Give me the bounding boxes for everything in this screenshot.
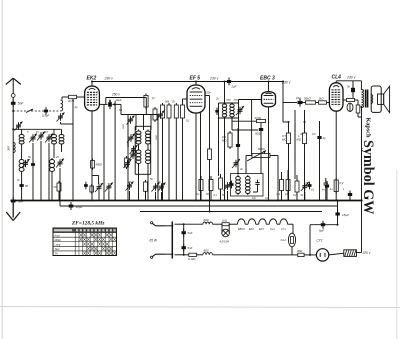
svg-text:4,5/0,04: 4,5/0,04 <box>220 240 230 244</box>
resistor dropper <box>356 103 360 115</box>
wire EF3 k second <box>200 113 202 201</box>
coil IFT1 secondary <box>230 103 234 119</box>
svg-text:50kΩ: 50kΩ <box>258 147 266 151</box>
dial lamp CL2 <box>288 233 295 247</box>
wire <box>157 115 159 201</box>
trimmer IFT1 right <box>236 106 244 115</box>
wire <box>108 191 110 201</box>
wire <box>150 115 152 131</box>
trimmer cath a <box>95 183 103 192</box>
wire <box>21 188 23 201</box>
trimmer C osc1 <box>127 134 135 143</box>
svg-text:EBC3: EBC3 <box>238 228 245 231</box>
mains plug lower prong <box>156 253 166 255</box>
wire dashed wave switch <box>13 110 60 112</box>
svg-text:2p: 2p <box>322 136 327 140</box>
wire grid to tube <box>77 96 85 98</box>
svg-text:0000: 0000 <box>156 134 158 140</box>
wire <box>357 113 359 117</box>
svg-text:CY1: CY1 <box>317 239 323 243</box>
wire <box>229 223 237 225</box>
page edge right <box>396 170 398 339</box>
svg-text:30Ω: 30Ω <box>297 249 303 253</box>
trimmer C on antenna lead <box>15 122 23 131</box>
transformer secondary <box>371 95 373 104</box>
wire link row1 <box>232 120 257 122</box>
svg-text:15µF: 15µF <box>342 213 349 217</box>
capacitor blob right2 <box>317 134 321 142</box>
trimmer C3 <box>37 132 45 141</box>
resistor R row1c <box>167 103 171 120</box>
wire EF3 in left <box>183 98 188 100</box>
wire 8uF line <box>310 224 338 226</box>
wire osc bracket <box>135 125 151 127</box>
capacitor C blob <box>31 161 35 169</box>
tube EF3 <box>187 85 205 113</box>
wire <box>281 172 283 180</box>
capacitor 5nF to ground bus <box>11 197 16 205</box>
svg-text:1kΩ: 1kΩ <box>222 219 228 223</box>
tube EK2 <box>85 86 100 111</box>
wire <box>205 95 207 97</box>
wire <box>304 144 306 201</box>
svg-text:Kurz: Kurz <box>55 233 61 237</box>
wire <box>138 146 140 150</box>
capacitor 500u <box>259 126 263 134</box>
svg-text:Mittel: Mittel <box>55 238 62 242</box>
alignment table <box>53 228 117 256</box>
svg-text:Kapsch: Kapsch <box>365 118 372 139</box>
mains plug upper prong <box>156 225 166 227</box>
resistor 0,1k <box>189 253 197 256</box>
wire <box>316 102 319 104</box>
trimmer tone <box>232 159 240 168</box>
wire EBC3 anode right <box>282 82 284 103</box>
wire <box>200 176 202 180</box>
svg-text:400Ω: 400Ω <box>96 163 102 167</box>
wire pot right <box>270 155 278 157</box>
svg-text:CL2: CL2 <box>281 238 287 242</box>
svg-text:220 v: 220 v <box>362 251 371 255</box>
resistor 1M col <box>302 131 306 146</box>
svg-text:220v: 220v <box>204 91 211 95</box>
coil Losc3 <box>136 149 141 166</box>
barretter 600 top <box>203 222 213 224</box>
wire <box>294 122 296 161</box>
wire anode stub EBC3 <box>268 82 270 92</box>
trimmer osc m3 <box>124 159 132 168</box>
capacitor blob cath <box>84 182 88 190</box>
resistor 47k horizontal <box>257 119 266 122</box>
svg-text:CL4: CL4 <box>332 75 342 81</box>
resistor 30ohm <box>298 253 304 256</box>
svg-text:Lang: Lang <box>55 243 61 247</box>
svg-text:10µF: 10µF <box>76 205 83 209</box>
svg-text:360: 360 <box>7 146 11 151</box>
wire <box>329 253 344 255</box>
svg-text:EF3: EF3 <box>259 228 264 231</box>
wire <box>325 178 327 181</box>
svg-text:50: 50 <box>25 184 29 188</box>
wire EBC3 left vertical <box>251 100 253 156</box>
wire bus2 left end <box>59 201 61 207</box>
svg-text:250 v: 250 v <box>111 93 120 97</box>
trimmer padder <box>57 113 65 122</box>
wire <box>283 102 297 104</box>
capacitor 2uF on rail <box>227 78 231 86</box>
trimmer C6 <box>56 159 64 168</box>
svg-text:ZF=128,5 kHz: ZF=128,5 kHz <box>71 221 105 227</box>
wire <box>145 98 147 115</box>
trimmer osc m1 <box>127 116 135 125</box>
capacitor IFT1 left <box>215 108 218 115</box>
wire EBC3 cathode <box>268 107 270 201</box>
speaker frame <box>371 86 381 112</box>
coil IFT2 b <box>246 175 251 195</box>
resistor Rb1 <box>199 178 203 193</box>
wire anode stub EF3 <box>195 82 197 86</box>
page edge bottom <box>0 307 400 308</box>
wire <box>175 120 177 201</box>
resistor R bank <box>57 181 61 193</box>
svg-text:5nF: 5nF <box>188 231 193 235</box>
wire ground bus 1 (thick) <box>11 200 363 202</box>
wire right col 295 <box>294 110 296 179</box>
svg-text:Symbol GW: Symbol GW <box>360 140 376 215</box>
wire vert 104 <box>103 104 105 200</box>
wire return bus 3 <box>140 211 322 213</box>
capacitor 10nF coupling <box>298 98 303 106</box>
svg-text:2000: 2000 <box>233 100 240 102</box>
resistor R row1e <box>181 103 185 120</box>
capacitor 10uF bus2 <box>69 202 74 210</box>
svg-text:10n: 10n <box>296 96 301 100</box>
wire <box>260 123 262 127</box>
capacitor IFT2 <box>255 180 259 188</box>
resistor Rc3 <box>295 179 299 194</box>
wire <box>48 143 50 201</box>
antenna <box>6 78 21 93</box>
wire anode stub EK2 <box>91 82 93 87</box>
coil L4 <box>59 133 64 146</box>
svg-text:230 v: 230 v <box>346 76 356 80</box>
wire rect cathode drop <box>309 225 311 255</box>
trimmer cath b <box>105 183 113 192</box>
svg-text:4n75: 4n75 <box>68 99 75 103</box>
wire <box>61 129 63 133</box>
trimmer Cc <box>301 182 309 191</box>
wire <box>138 165 140 201</box>
resistor Rb2 <box>209 178 213 193</box>
cathode circle CL4 <box>347 103 353 111</box>
wire 2p line <box>72 99 74 124</box>
coil L5 <box>50 158 55 173</box>
svg-text:10µF: 10µF <box>115 98 122 102</box>
wire <box>161 192 163 201</box>
wire <box>98 191 100 201</box>
capacitor 0,5uF on switch line <box>44 107 48 115</box>
capacitor blob c <box>308 182 312 190</box>
pot arrow <box>247 151 266 162</box>
resistor on osc left line <box>125 156 129 169</box>
wire <box>58 191 60 201</box>
trimmer osc b1 <box>126 182 134 191</box>
wire EF3 g2 right <box>205 95 210 97</box>
svg-text:0,1: 0,1 <box>97 91 101 95</box>
svg-text:50kΩ: 50kΩ <box>304 97 312 101</box>
svg-text:50k: 50k <box>165 100 170 104</box>
wire IFT1 left leg <box>218 118 220 176</box>
wire <box>32 143 34 201</box>
svg-text:CY1: CY1 <box>281 228 286 231</box>
wire grid to CL4 <box>327 102 330 104</box>
resistor 50k grid <box>306 101 316 104</box>
wire <box>197 254 203 256</box>
wire <box>304 254 316 256</box>
wire <box>355 99 359 101</box>
wire EF3 cathode <box>195 113 197 201</box>
barretter 600 bottom <box>203 253 213 255</box>
svg-text:0000: 0000 <box>126 141 130 147</box>
coil L3 <box>52 133 57 146</box>
coil ant secondary <box>61 100 63 111</box>
coil Losc1 <box>136 130 141 146</box>
svg-text:0,2: 0,2 <box>340 181 344 185</box>
trimmer C row1 <box>157 111 165 120</box>
page edge left <box>1 0 3 339</box>
svg-text:2µF: 2µF <box>231 85 237 89</box>
wire antenna down <box>12 97 14 199</box>
svg-text:0000: 0000 <box>123 123 125 129</box>
tube CL4 <box>329 83 343 111</box>
trimmer C osc2 <box>129 151 137 160</box>
wire <box>291 223 294 225</box>
svg-text:0,1kΩ: 0,1kΩ <box>188 257 196 261</box>
switch mains <box>171 222 173 259</box>
trimmer C4 <box>45 134 53 143</box>
IFT2 frame <box>231 174 264 197</box>
transformer core <box>365 90 367 108</box>
resistor R row1d <box>174 103 178 120</box>
wire <box>209 160 211 212</box>
wire CL4 cathode <box>335 111 337 200</box>
wire <box>72 124 74 201</box>
resistor 400 on EK2 cathode <box>91 159 95 171</box>
capacitor 4n75 box <box>69 95 77 98</box>
resistor 1k grid <box>319 101 327 104</box>
wire <box>112 103 121 105</box>
volume pot 50k <box>252 154 270 158</box>
resistor 1k lamp shunt <box>222 223 229 226</box>
svg-text:230 v: 230 v <box>209 76 219 80</box>
trimmer Cb <box>224 182 232 191</box>
wire col 283 down <box>282 103 284 123</box>
wire EK2 right <box>100 103 108 105</box>
wire <box>145 191 147 200</box>
svg-text:230 v: 230 v <box>104 76 114 80</box>
choke hatched <box>344 250 357 257</box>
svg-text:2n: 2n <box>215 97 219 101</box>
transformer primary <box>361 90 363 108</box>
svg-text:0,5: 0,5 <box>312 132 316 136</box>
wire mains bottom <box>165 253 172 255</box>
wire <box>59 168 61 201</box>
coil IFT2 a <box>236 175 241 195</box>
wire IFT1 inner legs <box>224 118 226 201</box>
capacitor 5nF antenna series <box>11 99 16 107</box>
capacitor 8uF <box>321 221 325 229</box>
svg-text:2n: 2n <box>299 132 303 136</box>
wire mains caps <box>183 224 185 255</box>
capacitor plates c <box>324 180 329 188</box>
capacitor 2n CL4 k <box>325 182 329 190</box>
svg-text:1kΩ: 1kΩ <box>319 97 325 101</box>
wire pot left <box>246 155 252 157</box>
svg-text:2p: 2p <box>74 105 79 109</box>
wire IFT1 down <box>231 118 233 128</box>
resistor on g2 line <box>208 147 212 162</box>
trimmer osc m2 <box>130 145 138 154</box>
wire <box>326 181 328 201</box>
svg-text:0,1: 0,1 <box>196 192 200 196</box>
wire <box>129 191 131 201</box>
wire <box>155 192 157 201</box>
wire anode CL4 <box>335 81 337 83</box>
trimmer C5 <box>22 159 30 168</box>
svg-text:EBC 3: EBC 3 <box>260 76 275 82</box>
wire <box>349 191 351 201</box>
resistor cath box <box>90 184 94 194</box>
wire <box>291 247 293 255</box>
svg-text:0,5µF: 0,5µF <box>42 114 49 118</box>
wire <box>319 121 321 134</box>
wire <box>51 173 53 201</box>
coil IFT1 primary <box>222 103 226 119</box>
capacitor 15uF <box>335 210 339 218</box>
wire <box>237 128 239 143</box>
capacitor 0,1u corner <box>348 191 352 199</box>
svg-text:0,1: 0,1 <box>277 192 281 196</box>
resistor R row1b <box>161 103 165 120</box>
resistor R row1a <box>153 107 157 122</box>
svg-text:2000: 2000 <box>225 100 232 102</box>
wire osc top <box>120 104 122 114</box>
capacitor blob mid <box>236 142 240 150</box>
capacitor C to bus <box>20 182 24 190</box>
node antenna terminal <box>11 94 15 98</box>
svg-text:5n: 5n <box>347 85 351 89</box>
resistor CL4 cath <box>334 178 338 194</box>
svg-text:EF 5: EF 5 <box>190 76 201 82</box>
wire <box>21 146 23 159</box>
wire B+ vertical right <box>361 107 363 253</box>
svg-text:EK2: EK2 <box>87 76 97 82</box>
trimmer osc b2 <box>152 183 160 192</box>
wire <box>40 141 42 201</box>
resistor Rc2 <box>286 178 290 193</box>
rectifier CY1 <box>316 249 328 261</box>
speaker cone <box>384 86 390 112</box>
wire <box>143 115 145 131</box>
svg-text:65 W: 65 W <box>150 239 158 243</box>
heater chain loops <box>238 219 291 224</box>
svg-text:NG: NG <box>54 185 58 189</box>
wire <box>182 120 184 201</box>
wire EBC3 grid line <box>239 99 262 101</box>
coil antenna series 360 on antenna lead <box>13 143 15 153</box>
resistor 0,5M col <box>286 131 290 146</box>
svg-text:CL4: CL4 <box>270 228 275 231</box>
wire CL4 line down <box>337 201 339 225</box>
capacitor blob EK2 out <box>108 100 112 109</box>
wire <box>200 191 202 201</box>
wire <box>21 129 23 133</box>
wire <box>304 110 306 133</box>
wire <box>288 144 290 201</box>
switch band <box>26 109 33 113</box>
wire IFT1 frame <box>219 102 239 104</box>
svg-text:TA: TA <box>55 252 58 256</box>
wire <box>53 129 55 133</box>
svg-text:5nF: 5nF <box>18 200 23 204</box>
svg-text:50k: 50k <box>206 192 211 196</box>
svg-text:8µF: 8µF <box>319 229 324 233</box>
trimmer osc b3 <box>158 183 166 192</box>
wire <box>303 102 306 104</box>
pilot lamp <box>222 229 230 237</box>
capacitor 5nF mains a <box>182 229 186 237</box>
ground arrow <box>6 203 20 221</box>
svg-text:Tast: Tast <box>55 247 60 251</box>
wire <box>352 92 354 98</box>
coil L2 <box>19 158 24 173</box>
speaker coil box <box>378 94 384 104</box>
wire CL4 g2 right <box>343 99 347 101</box>
tube EBC3 <box>262 92 276 107</box>
capacitor 5nF mains b <box>182 244 186 252</box>
coil Losc2 <box>146 130 151 146</box>
resistor Rc1 <box>280 178 284 193</box>
wire box to coil <box>62 96 69 98</box>
svg-text:10n: 10n <box>252 197 257 200</box>
wire <box>21 173 23 183</box>
wire <box>162 120 164 201</box>
wire g2 line <box>106 97 147 99</box>
wire <box>356 252 361 254</box>
coil Losc4 <box>146 149 151 166</box>
coil L1 <box>19 133 24 146</box>
resistor osc b <box>144 180 148 193</box>
wire return bus 2 <box>60 205 338 207</box>
resistor R osc <box>144 94 148 110</box>
wire vertical <box>127 115 129 201</box>
capacitor 5n CL4 <box>351 85 355 94</box>
svg-text:47kΩ: 47kΩ <box>255 116 263 120</box>
wire <box>168 120 170 201</box>
resistor g2 feed <box>347 98 355 101</box>
resistor 0,3M <box>228 131 232 149</box>
wire <box>288 122 290 133</box>
svg-text:5nF: 5nF <box>188 246 193 250</box>
wire <box>135 115 137 131</box>
svg-text:600: 600 <box>204 218 209 222</box>
wire osc left vertical <box>114 101 116 201</box>
svg-text:0,1: 0,1 <box>186 119 190 123</box>
svg-text:EK2: EK2 <box>249 228 254 231</box>
wire <box>260 133 262 174</box>
svg-text:600: 600 <box>204 249 209 253</box>
wire coil bank top rail <box>13 128 61 130</box>
